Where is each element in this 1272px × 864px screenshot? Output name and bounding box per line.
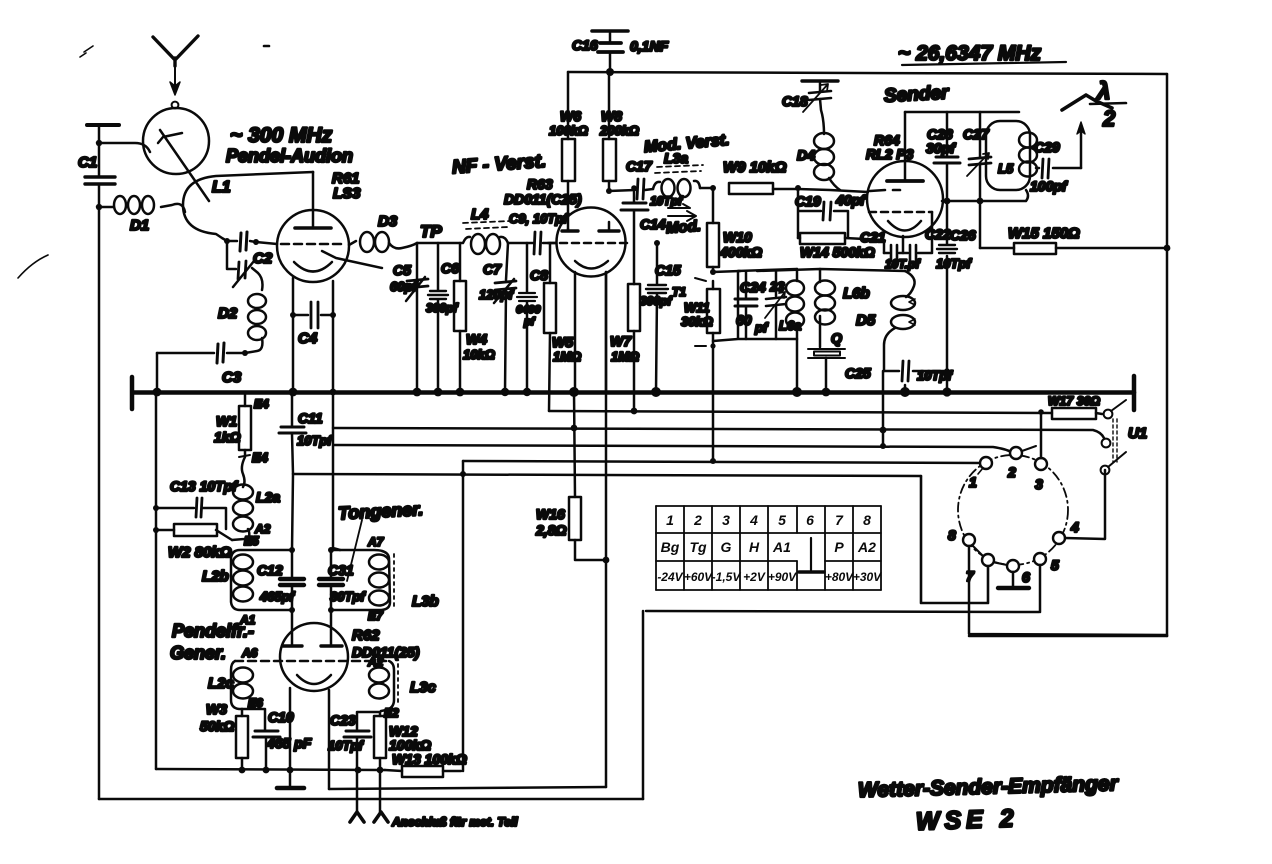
svg-text:L6a: L6a: [779, 318, 801, 333]
trimmer 23: [775, 270, 778, 339]
svg-text:Wetter-Sender-Empfänger: Wetter-Sender-Empfänger: [858, 772, 1120, 802]
ground symbol: [289, 770, 292, 787]
resistor W17: [1052, 408, 1096, 419]
svg-text:C4: C4: [298, 330, 318, 347]
svg-text:C5: C5: [393, 262, 411, 278]
switch U1: [1104, 410, 1113, 419]
svg-text:W9 10kΩ: W9 10kΩ: [723, 159, 787, 176]
svg-text:100kΩ: 100kΩ: [549, 123, 588, 138]
svg-text:6: 6: [806, 512, 814, 528]
svg-text:W6: W6: [560, 108, 581, 124]
trimmer C5: [416, 243, 419, 392]
svg-text:Pendel-Audion: Pendel-Audion: [226, 146, 353, 166]
wire C3 corner to bus: [156, 353, 159, 392]
svg-text:E4: E4: [254, 397, 269, 411]
svg-text:A6: A6: [241, 646, 258, 660]
svg-text:E7: E7: [368, 609, 384, 623]
svg-text:100pf: 100pf: [1030, 178, 1068, 194]
capacitor C4: [311, 302, 318, 328]
wire tube top to hairpin: [312, 171, 315, 174]
sender antenna: [1080, 133, 1083, 168]
svg-text:H: H: [749, 539, 760, 555]
svg-text:W5: W5: [552, 334, 573, 350]
svg-text:C15: C15: [655, 262, 681, 278]
pin 3: [1035, 458, 1047, 470]
svg-text:~ 300 MHz: ~ 300 MHz: [230, 124, 333, 147]
antenna: [153, 36, 198, 95]
capacitor C26: [946, 201, 949, 392]
svg-text:U1: U1: [1128, 425, 1147, 442]
resistor W4: [459, 243, 462, 392]
svg-text:L4: L4: [471, 206, 489, 223]
svg-text:NF - Verst.: NF - Verst.: [451, 151, 547, 179]
svg-text:1MΩ: 1MΩ: [553, 349, 581, 364]
capacitor C28: [946, 112, 949, 201]
svg-text:C24: C24: [740, 279, 766, 295]
svg-text:50kΩ: 50kΩ: [200, 718, 234, 734]
antenna terminal: [172, 102, 179, 109]
svg-text:L2b: L2b: [202, 568, 229, 585]
mod arrow: [668, 204, 696, 221]
C24 box frame: [713, 271, 797, 341]
svg-text:Gener.: Gener.: [170, 643, 226, 663]
svg-text:7: 7: [966, 568, 975, 584]
svg-text:400kΩ: 400kΩ: [719, 244, 762, 260]
capacitor C29: [1036, 167, 1081, 170]
capacitor C9 series: [508, 242, 556, 245]
svg-text:W8: W8: [601, 108, 622, 124]
table voltage texts: [657, 570, 882, 584]
svg-text:DD011(C25): DD011(C25): [504, 191, 582, 207]
wire rail y445: [333, 445, 1011, 452]
svg-text:C10: C10: [268, 709, 294, 725]
svg-text:8: 8: [948, 527, 956, 543]
capacitor C11: [292, 392, 293, 474]
C1 top bar: [87, 123, 119, 127]
wire rail y461: [463, 461, 983, 463]
inductor L6b: [819, 269, 822, 347]
svg-text:60: 60: [736, 312, 752, 328]
wire ground return y770: [156, 769, 385, 770]
svg-text:Sender: Sender: [883, 82, 950, 106]
svg-text:10Tpf: 10Tpf: [297, 433, 333, 448]
capacitor C15: [656, 243, 657, 392]
tuning diagonal: [160, 130, 209, 201]
svg-text:W2 80kΩ: W2 80kΩ: [168, 544, 232, 561]
wire right frame: [1166, 74, 1169, 636]
capacitor C31: [330, 550, 333, 610]
svg-text:60pf: 60pf: [390, 279, 418, 294]
svg-text:2,8Ω: 2,8Ω: [535, 522, 566, 538]
resistor W9: [729, 183, 773, 194]
pin 5: [1034, 553, 1046, 565]
svg-text:5: 5: [778, 512, 786, 528]
svg-text:L3b: L3b: [412, 593, 439, 610]
crystal Q: [808, 349, 845, 358]
capacitor C25: [884, 370, 947, 373]
svg-text:C17: C17: [626, 158, 653, 174]
cathode leads: [293, 278, 333, 392]
svg-text:D3: D3: [378, 213, 398, 230]
svg-text:D4: D4: [797, 147, 815, 163]
svg-text:C18: C18: [782, 93, 808, 109]
svg-text:TP: TP: [420, 222, 442, 241]
svg-text:pf: pf: [754, 320, 769, 335]
svg-text:+2V: +2V: [743, 570, 766, 584]
svg-text:+30V: +30V: [853, 570, 882, 584]
node misc dots: [96, 140, 102, 146]
resistor W7: [633, 284, 636, 411]
wire x333 bus to tongener: [333, 392, 340, 550]
svg-text:C2: C2: [253, 250, 273, 267]
inductor L5: [986, 121, 1030, 190]
svg-text:4: 4: [749, 512, 758, 528]
wire y787 to cathode return: [329, 787, 606, 789]
tube R62: [280, 623, 348, 691]
pin8 wire down: [969, 546, 1167, 635]
svg-text:30pf: 30pf: [926, 140, 956, 156]
svg-text:L2c: L2c: [208, 675, 235, 692]
capacitor C19 loop: [798, 189, 848, 238]
capacitor C14: [633, 188, 636, 284]
box L3c: [381, 661, 394, 711]
svg-text:120pf: 120pf: [479, 287, 515, 302]
wire D5 stem to y446: [882, 371, 885, 446]
svg-text:W11: W11: [684, 300, 710, 315]
svg-text:200kΩ: 200kΩ: [599, 123, 639, 138]
svg-text:L5: L5: [998, 161, 1014, 176]
wire C11 to L2b: [292, 474, 293, 550]
svg-text:A2: A2: [857, 539, 876, 555]
svg-text:4: 4: [1070, 519, 1079, 535]
stray mark: [80, 46, 93, 57]
capacitor C2: [240, 232, 247, 251]
svg-text:30Tpf: 30Tpf: [330, 589, 366, 604]
svg-text:A2: A2: [367, 655, 384, 669]
svg-text:G: G: [721, 539, 732, 555]
wire pin1 stub: [978, 468, 983, 474]
svg-text:W15 150Ω: W15 150Ω: [1008, 225, 1080, 242]
svg-text:+60V: +60V: [684, 570, 713, 584]
svg-text:C9, 10Tpf: C9, 10Tpf: [509, 211, 569, 226]
trimmer C7: [505, 243, 508, 392]
svg-text:1MΩ: 1MΩ: [611, 349, 639, 364]
capacitor C17: [637, 179, 644, 199]
capacitor C10: [242, 709, 266, 770]
mystery stub: [904, 385, 907, 392]
wire rail y428: [333, 428, 1104, 438]
wire rail y411: [549, 411, 1052, 413]
pin 1: [980, 457, 992, 469]
svg-text:W4: W4: [466, 331, 487, 347]
wire pin7 feed: [921, 476, 988, 603]
inductor D4: [814, 133, 834, 149]
svg-text:C1: C1: [78, 154, 97, 171]
svg-text:C26: C26: [950, 227, 976, 243]
resistor W14: [798, 238, 884, 253]
svg-text:1: 1: [666, 512, 674, 528]
tube R64: [867, 161, 943, 237]
resistor W15: [980, 247, 1167, 250]
svg-text:Pendelfr.-: Pendelfr.-: [172, 621, 254, 641]
wire plate line right: [942, 190, 1028, 201]
plate rail y112: [905, 111, 1019, 114]
inductor D1: [99, 204, 185, 212]
svg-text:W13 100kΩ: W13 100kΩ: [392, 751, 467, 767]
svg-text:2: 2: [1007, 464, 1016, 480]
trimmer C18: [802, 79, 838, 82]
svg-text:10Tpf: 10Tpf: [328, 738, 364, 753]
svg-text:Tongener.: Tongener.: [337, 499, 423, 523]
resistor W6: [562, 139, 575, 181]
svg-text:7: 7: [835, 512, 844, 528]
svg-text:C16: C16: [572, 37, 598, 53]
inductor D3: [349, 241, 356, 245]
capacitor C23: [357, 712, 380, 812]
pin 6: [1007, 560, 1019, 572]
svg-text:L6b: L6b: [843, 285, 870, 302]
capacitor C12: [291, 550, 294, 610]
svg-text:30kΩ: 30kΩ: [681, 314, 713, 329]
svg-text:Q: Q: [831, 330, 842, 346]
svg-text:-1,5V: -1,5V: [712, 570, 742, 584]
svg-text:300pf: 300pf: [640, 294, 672, 308]
svg-text:C12: C12: [257, 562, 283, 578]
resistor W10: [712, 188, 715, 272]
svg-text:C19: C19: [795, 193, 821, 209]
terminals Anschluss: [350, 812, 364, 822]
bus left terminal: [130, 377, 135, 409]
wire rail y474: [293, 474, 921, 476]
inductor L6a: [796, 269, 799, 392]
svg-text:10T.pf: 10T.pf: [885, 257, 920, 271]
svg-text:LS3: LS3: [333, 185, 361, 202]
capacitor C3: [217, 343, 224, 363]
inductor D5: [905, 271, 915, 297]
tube R63: [557, 208, 626, 277]
svg-text:WSE 2: WSE 2: [915, 804, 1019, 836]
inductor L4: [417, 242, 462, 245]
pin 8: [963, 534, 975, 546]
svg-text:C25: C25: [845, 365, 871, 381]
resistor W3: [241, 709, 244, 770]
pin 2: [1010, 447, 1022, 459]
resistor W2: [156, 530, 232, 540]
svg-text:C29: C29: [1034, 139, 1060, 155]
main bus: [133, 390, 1134, 395]
tank circle L1: [143, 108, 209, 174]
svg-text:E5: E5: [244, 534, 259, 548]
svg-text:L3c: L3c: [410, 679, 437, 696]
resistor W5: [549, 243, 550, 411]
wire left frame: [98, 126, 101, 799]
supply table grid: [656, 506, 881, 590]
table ground symbol: [810, 538, 812, 570]
svg-text:C13 10Tpf: C13 10Tpf: [170, 478, 238, 494]
capacitor C1: [85, 177, 115, 184]
plate tick inside circle: [158, 133, 182, 143]
svg-text:A7: A7: [367, 535, 385, 549]
capacitor C13: [156, 508, 226, 529]
wire x606 vertical: [605, 272, 608, 787]
node rail dots: [631, 408, 638, 415]
svg-text:C11: C11: [298, 410, 323, 426]
wire x463 vertical: [462, 461, 465, 771]
wire W6 feed: [567, 72, 570, 139]
svg-text:W3: W3: [206, 701, 227, 717]
capacitor C16: [592, 29, 628, 33]
pin 7: [982, 554, 994, 566]
svg-text:3: 3: [1035, 476, 1043, 492]
svg-text:T1: T1: [672, 285, 686, 299]
trimmer C27: [979, 112, 982, 248]
box L2c: [231, 661, 242, 709]
svg-text:W17 30Ω: W17 30Ω: [1048, 394, 1101, 408]
resistor W12: [379, 712, 382, 812]
bus right terminal: [1132, 376, 1137, 410]
svg-text:+80V: +80V: [825, 570, 854, 584]
wire bottom-right frame: [969, 635, 1167, 638]
tube R61: [277, 210, 349, 282]
node bus dots: [153, 388, 162, 397]
wire y190 line: [609, 190, 635, 191]
svg-text:E4: E4: [252, 450, 269, 465]
pin6 ground: [1012, 572, 1015, 586]
svg-text:465pf: 465pf: [259, 589, 296, 604]
resistor W11: [712, 281, 715, 461]
wire L3a to W9: [700, 187, 713, 190]
grid lead into T3: [773, 189, 868, 192]
cathode leads R62: [290, 688, 329, 789]
wire y269 line: [757, 269, 905, 271]
svg-text:D1: D1: [130, 217, 149, 234]
wire node to box: [713, 271, 740, 272]
svg-text:Bg: Bg: [661, 539, 680, 555]
table pin-number and name texts: [661, 512, 876, 555]
svg-text:2: 2: [1102, 106, 1116, 131]
capacitor C8: [526, 243, 529, 392]
svg-text:2: 2: [693, 512, 702, 528]
svg-text:D2: D2: [218, 305, 238, 322]
svg-text:10Tpf: 10Tpf: [936, 256, 972, 271]
svg-text:Tg: Tg: [689, 539, 707, 555]
svg-text:L1: L1: [212, 179, 231, 196]
resistor W1: [242, 392, 245, 487]
svg-text:RL2 P3: RL2 P3: [866, 146, 914, 162]
svg-text:Mod.: Mod.: [665, 218, 701, 237]
svg-text:L2a: L2a: [256, 489, 280, 505]
box L3b: [331, 550, 390, 610]
svg-text:R62: R62: [352, 627, 380, 644]
svg-text:P: P: [834, 539, 844, 555]
capacitor C6: [437, 243, 440, 392]
svg-text:10kΩ: 10kΩ: [463, 347, 495, 362]
svg-text:-24V: -24V: [657, 570, 683, 584]
wire rail y611: [646, 611, 1039, 612]
svg-text:3: 3: [722, 512, 730, 528]
svg-text:23: 23: [769, 279, 785, 294]
svg-text:W1: W1: [216, 413, 237, 429]
resistor W13: [385, 770, 461, 771]
box L2b: [231, 550, 292, 610]
svg-text:1: 1: [969, 474, 977, 490]
svg-text:pf: pf: [523, 316, 536, 328]
pin 4: [1053, 532, 1065, 544]
wire bottom-left frame: [99, 798, 643, 801]
svg-text:40pf: 40pf: [835, 192, 866, 208]
svg-text:6: 6: [1022, 569, 1030, 585]
resonant hairpin L1: [183, 172, 313, 241]
svg-text:W10: W10: [723, 229, 752, 245]
node ground return dots: [239, 767, 246, 774]
inductor L3a: [653, 181, 700, 189]
svg-text:C14: C14: [640, 216, 666, 232]
svg-text:C3: C3: [222, 369, 242, 386]
trimmer below C2: [227, 241, 263, 290]
svg-text:W14 500kΩ: W14 500kΩ: [800, 244, 875, 260]
svg-text:W16: W16: [536, 506, 565, 522]
inductor L2a: [233, 485, 253, 500]
svg-text:C6: C6: [441, 260, 459, 276]
resistor W8: [608, 72, 611, 139]
inductor D2: [248, 294, 266, 308]
connector circle: [958, 455, 1068, 565]
svg-text:0,1NF: 0,1NF: [630, 38, 669, 54]
wire riser x643: [642, 611, 645, 799]
svg-text:Anschluß für met. Teil: Anschluß für met. Teil: [391, 815, 518, 829]
svg-text:~ 26,6347 MHz: ~ 26,6347 MHz: [898, 42, 1042, 65]
svg-text:C8: C8: [530, 267, 548, 283]
wire C1 node to circle: [99, 143, 150, 152]
capacitor C22 pair: [884, 212, 932, 253]
svg-text:D5: D5: [856, 312, 876, 329]
svg-text:A1: A1: [772, 539, 791, 555]
svg-text:8: 8: [863, 512, 871, 528]
svg-text:R63: R63: [527, 176, 553, 192]
svg-text:1kΩ: 1kΩ: [214, 429, 241, 445]
svg-text:C7: C7: [483, 261, 502, 277]
svg-text:DD011(25): DD011(25): [352, 644, 420, 660]
svg-text:5: 5: [1051, 557, 1059, 573]
resistor W16: [574, 392, 606, 560]
wire left box vertical x156: [155, 392, 158, 769]
svg-text:465 pF: 465 pF: [266, 735, 312, 751]
svg-text:6400: 6400: [516, 304, 541, 316]
capacitor C24: [745, 271, 748, 339]
svg-text:+90V: +90V: [768, 570, 797, 584]
svg-text:C21: C21: [860, 229, 886, 245]
svg-text:W7: W7: [610, 333, 632, 349]
svg-text:C23: C23: [330, 712, 356, 728]
wire top frame: [568, 72, 1167, 74]
svg-text:λ: λ: [1095, 78, 1110, 105]
